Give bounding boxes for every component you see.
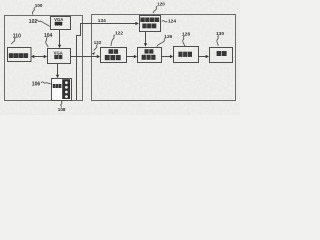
wire BIOS to chip xyxy=(59,30,61,47)
lead line for 104 xyxy=(45,38,48,48)
VGA chip box 104 xyxy=(48,49,71,64)
lead line for 108 xyxy=(61,101,63,108)
lead line for 130 xyxy=(217,36,219,46)
lead line for 106 xyxy=(41,82,51,84)
label 124 xyxy=(162,21,168,22)
lead line for 122 xyxy=(111,35,115,46)
connector pin strip xyxy=(62,79,70,99)
lead line for 128 xyxy=(183,36,185,46)
lead line for 132 xyxy=(94,45,98,51)
panel box 130 xyxy=(210,48,233,63)
DDC wire from port to lookup table xyxy=(77,24,137,101)
monitor box 120 xyxy=(92,15,236,101)
lead line for 120 xyxy=(153,6,157,13)
lead line for 100 xyxy=(33,7,36,14)
wire timing controller to driver xyxy=(162,56,172,58)
wire driver to panel xyxy=(199,56,208,58)
lead line for 102 xyxy=(36,20,50,26)
operating system box 110 xyxy=(8,48,32,62)
timing controller box 126 xyxy=(138,48,162,63)
signal converter box 122 xyxy=(101,48,127,63)
VGA port box 106 xyxy=(52,79,72,101)
wire table to timing controller xyxy=(145,32,147,45)
computer host box 100 xyxy=(5,16,83,101)
wire chip to connector xyxy=(57,64,59,77)
VGA BIOS box 102 xyxy=(51,17,71,30)
driver box 128 xyxy=(174,47,199,63)
wire chip to signal converter xyxy=(71,56,99,58)
lead line for 126 xyxy=(157,38,166,46)
wire OS to chip (double arrow) xyxy=(32,56,46,58)
wire converter to timing controller xyxy=(127,56,136,58)
voltage lookup table box 124 xyxy=(140,16,161,32)
lead line for 110 xyxy=(11,38,15,44)
